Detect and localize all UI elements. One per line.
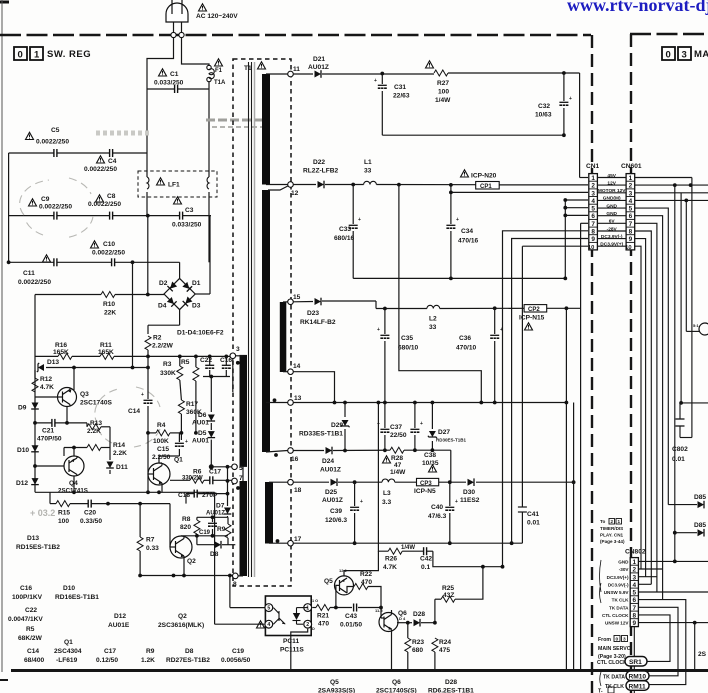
- svg-text:AU01: AU01: [192, 420, 209, 427]
- diode D2: [167, 281, 177, 291]
- left dashed border of page 03: [630, 34, 632, 693]
- svg-text:2: 2: [629, 183, 633, 190]
- svg-text:C39: C39: [330, 508, 342, 515]
- bottom row y=575.5 to pin8: [140, 575, 232, 577]
- svg-text:100P/1KV: 100P/1KV: [12, 594, 43, 601]
- svg-text:RD6.2ES-T1B1: RD6.2ES-T1B1: [428, 688, 474, 693]
- pin16 rail: [293, 450, 451, 482]
- svg-text:13: 13: [294, 395, 302, 402]
- transistor Q4: [64, 456, 84, 476]
- svg-text:5: 5: [239, 465, 243, 472]
- svg-text:C20: C20: [84, 510, 96, 517]
- svg-text:D85: D85: [694, 522, 706, 529]
- svg-text:R2: R2: [153, 335, 162, 342]
- svg-text:AC 120~240V: AC 120~240V: [196, 13, 238, 20]
- resistor R17: [178, 400, 184, 414]
- svg-text:+: +: [377, 327, 380, 333]
- svg-text:D12: D12: [16, 480, 28, 487]
- svg-text:R14: R14: [113, 442, 125, 449]
- svg-text:2SC3616(MLK): 2SC3616(MLK): [158, 622, 204, 629]
- svg-text:AU01Z: AU01Z: [322, 497, 343, 504]
- wire 3 (C11/C10 row) y=262.3: [9, 216, 210, 368]
- capacitor C33: [349, 225, 358, 228]
- svg-text:17: 17: [294, 536, 302, 543]
- svg-text:2: 2: [306, 622, 309, 628]
- svg-text:270P: 270P: [202, 492, 218, 499]
- svg-text:Q1: Q1: [174, 457, 183, 464]
- svg-text:2SC1740S: 2SC1740S: [80, 400, 112, 407]
- svg-text:C17: C17: [209, 469, 221, 476]
- svg-text:C32: C32: [538, 103, 550, 110]
- svg-text:2S: 2S: [698, 651, 707, 658]
- svg-text:9: 9: [633, 620, 637, 627]
- svg-text:D: D: [312, 627, 315, 631]
- capacitor C21 row y=422.9: [35, 422, 87, 424]
- capacitor C802: [676, 419, 685, 426]
- svg-text:TK DATA: TK DATA: [609, 605, 629, 610]
- svg-text:0.0022/250: 0.0022/250: [88, 201, 121, 208]
- pin 18: [288, 479, 294, 485]
- top dashed border page 01: [0, 34, 591, 37]
- svg-text:C22: C22: [25, 607, 37, 614]
- svg-text:+: +: [185, 439, 188, 445]
- resistor R8: [194, 520, 200, 534]
- capacitor C38: [410, 429, 419, 432]
- svg-text:8: 8: [591, 229, 595, 236]
- svg-text:C35: C35: [401, 335, 413, 342]
- resistor R15 / cap C20 row y=503.6: [50, 504, 170, 547]
- svg-text:C19: C19: [199, 530, 211, 536]
- resistor R13: [87, 424, 101, 430]
- svg-text:D1-D4:10E6-F2: D1-D4:10E6-F2: [177, 330, 224, 337]
- svg-text:RD15ES-T1B2: RD15ES-T1B2: [16, 544, 60, 551]
- zener D13: [37, 363, 44, 372]
- capacitor C32: [559, 102, 568, 105]
- From MAIN SERVO note: [598, 637, 631, 660]
- svg-text:AU01E: AU01E: [108, 622, 130, 629]
- svg-text:6: 6: [591, 213, 595, 220]
- svg-text:R12: R12: [40, 376, 52, 383]
- section label 03 MA: [662, 47, 691, 60]
- resistor R11: [100, 353, 114, 359]
- svg-text:22/63: 22/63: [393, 93, 410, 100]
- svg-text:47/6.3: 47/6.3: [428, 513, 447, 520]
- svg-text:C42: C42: [420, 556, 432, 563]
- svg-text:F1: F1: [215, 68, 223, 74]
- svg-text:C14: C14: [128, 408, 140, 415]
- zener D29: [341, 420, 350, 427]
- svg-text:165K: 165K: [98, 349, 114, 356]
- svg-text:0.0022/250: 0.0022/250: [18, 279, 51, 286]
- top-left scan mark: [0, 1, 9, 4]
- svg-text:R22: R22: [360, 571, 372, 578]
- svg-text:16: 16: [291, 456, 299, 463]
- svg-text:0: 0: [666, 50, 672, 61]
- wire 2 (C9/C8/C3 row) y=215.6: [9, 215, 211, 217]
- svg-text:L3: L3: [383, 490, 391, 497]
- secondary winding 11-12: [262, 74, 270, 185]
- svg-text:0.01: 0.01: [672, 456, 685, 463]
- svg-text:C18: C18: [178, 492, 190, 499]
- svg-text:2.2/2W: 2.2/2W: [152, 343, 174, 350]
- svg-text:D10: D10: [17, 447, 29, 454]
- pin 15: [288, 299, 294, 305]
- svg-text:470: 470: [318, 621, 329, 628]
- R26/C42 row: [378, 403, 502, 567]
- svg-text:680/10: 680/10: [398, 345, 419, 352]
- svg-text:C15: C15: [157, 446, 169, 453]
- svg-text:33: 33: [364, 168, 372, 175]
- svg-text:Q6: Q6: [392, 679, 401, 686]
- capacitor C35: [384, 309, 386, 403]
- svg-text:RD33ES-T1B1: RD33ES-T1B1: [299, 431, 343, 438]
- svg-text:Q5: Q5: [330, 679, 339, 686]
- svg-text:0.01: 0.01: [527, 520, 540, 527]
- secondary winding 13-16: [262, 190, 270, 452]
- pin 3: [230, 353, 236, 359]
- svg-text:6: 6: [633, 597, 637, 604]
- wire pin5 stub: [209, 465, 231, 469]
- svg-text:4: 4: [591, 198, 595, 205]
- rows exiting CN601: [635, 177, 692, 179]
- resistor R3 vertical: [193, 367, 199, 381]
- svg-text:D7: D7: [216, 503, 225, 510]
- svg-text:R26: R26: [385, 556, 397, 563]
- svg-text:R9: R9: [146, 648, 155, 655]
- pin 14: [288, 369, 294, 375]
- svg-text:+: +: [420, 421, 423, 427]
- svg-text:22K: 22K: [104, 310, 116, 317]
- C14 vertical line: [147, 356, 149, 492]
- svg-text:1/4W: 1/4W: [390, 469, 406, 476]
- svg-text:22/50: 22/50: [390, 432, 407, 439]
- svg-text:(Page 3-44): (Page 3-44): [600, 539, 625, 544]
- diode D7: [224, 508, 232, 515]
- svg-text:C802: C802: [672, 446, 688, 453]
- svg-text:R15: R15: [58, 510, 70, 517]
- svg-text:4: 4: [629, 198, 633, 205]
- diode D11: [106, 462, 114, 469]
- wire 1 (C5/C4 row) y=153: [9, 153, 147, 262]
- svg-text:5:1: 5:1: [693, 323, 700, 328]
- svg-text:D28: D28: [413, 611, 425, 618]
- svg-text:820: 820: [180, 524, 191, 531]
- svg-text:68K/2W: 68K/2W: [18, 635, 43, 642]
- svg-text:RK14LF-B2: RK14LF-B2: [300, 319, 336, 326]
- svg-text:120/6.3: 120/6.3: [325, 517, 347, 524]
- svg-text:D22: D22: [313, 159, 325, 166]
- svg-text:D30: D30: [463, 489, 475, 496]
- diode D28: [414, 619, 421, 627]
- top dashed border page 03: [630, 33, 708, 36]
- svg-text:0.0022/250: 0.0022/250: [36, 139, 69, 146]
- svg-text:AU01Z: AU01Z: [308, 64, 329, 71]
- svg-text:R25: R25: [442, 585, 454, 592]
- PC11 wires: [215, 608, 381, 671]
- svg-text:CN601: CN601: [621, 163, 642, 170]
- svg-text:100: 100: [58, 518, 69, 525]
- net labels between connectors: [598, 173, 626, 248]
- svg-text:D8: D8: [185, 648, 194, 655]
- svg-text:TK DATA: TK DATA: [603, 675, 625, 681]
- svg-text:C22: C22: [200, 357, 212, 364]
- CN802 wires: [634, 561, 708, 693]
- capacitor C41: [518, 246, 588, 543]
- svg-text:D13: D13: [47, 359, 59, 366]
- svg-text:9: 9: [591, 236, 595, 243]
- svg-text:2SA933S(S): 2SA933S(S): [318, 688, 355, 693]
- svg-text:1: 1: [618, 519, 621, 524]
- transistor Q6: [379, 613, 398, 632]
- bottom left dash stub: [0, 679, 8, 681]
- svg-text:RD27ES-T1B2: RD27ES-T1B2: [166, 657, 210, 664]
- svg-text:8: 8: [633, 613, 637, 620]
- svg-text:D6: D6: [198, 412, 207, 419]
- svg-text:T1A: T1A: [214, 80, 226, 86]
- diode D4: [167, 297, 177, 307]
- svg-text:470P/50: 470P/50: [37, 436, 62, 443]
- svg-text:7: 7: [629, 221, 633, 228]
- pin 16: [288, 448, 294, 454]
- svg-text:D10: D10: [63, 585, 75, 592]
- diode D30: [468, 478, 475, 486]
- diode D858: [698, 529, 705, 537]
- svg-text:2: 2: [591, 183, 595, 190]
- resistor R14: [87, 445, 101, 451]
- svg-text:D 4: D 4: [399, 616, 406, 621]
- svg-text:C41: C41: [527, 511, 539, 518]
- svg-text:2SC1740S(S): 2SC1740S(S): [376, 688, 417, 693]
- svg-text:470/10: 470/10: [456, 345, 477, 352]
- svg-text:C19: C19: [232, 648, 244, 655]
- svg-text:5: 5: [267, 606, 270, 612]
- svg-text:D1: D1: [192, 280, 201, 287]
- capacitor C19: [208, 523, 217, 526]
- svg-text:8: 8: [629, 229, 633, 236]
- circuit protector CP3: [417, 478, 439, 485]
- svg-text:L1: L1: [364, 159, 372, 166]
- svg-text:AU01Z: AU01Z: [206, 511, 225, 517]
- svg-text:18: 18: [294, 487, 302, 494]
- svg-text:475: 475: [439, 647, 450, 654]
- svg-text:14: 14: [293, 363, 301, 370]
- svg-text:2.2/50: 2.2/50: [152, 454, 171, 461]
- svg-text:R27: R27: [437, 80, 449, 87]
- circuit protector CP2: [524, 305, 547, 312]
- svg-text:11ES2: 11ES2: [460, 497, 480, 504]
- svg-text:C16: C16: [20, 585, 32, 592]
- svg-text:D85: D85: [694, 494, 706, 501]
- long feedback vertical to PC11 pin4: [214, 492, 216, 624]
- svg-text:0: 0: [616, 637, 619, 643]
- capacitor C18 row: [186, 494, 228, 504]
- svg-text:UNSW 12V: UNSW 12V: [605, 621, 629, 626]
- svg-text:330K: 330K: [160, 370, 176, 377]
- svg-text:11.5: 11.5: [375, 608, 383, 613]
- svg-text:D11: D11: [116, 464, 128, 471]
- svg-text:7: 7: [239, 475, 243, 482]
- svg-text:R11: R11: [100, 342, 112, 349]
- svg-text:470/16: 470/16: [458, 238, 479, 245]
- resistor R7: [137, 537, 143, 551]
- svg-text:1/4W: 1/4W: [435, 97, 451, 104]
- wire verticals through LF1: [147, 89, 209, 262]
- svg-text:D24: D24: [322, 458, 334, 465]
- plug terminals on dashed line: [171, 32, 176, 37]
- svg-text:CN802: CN802: [625, 549, 646, 556]
- svg-text:3: 3: [633, 574, 637, 581]
- svg-text:ICP-N5: ICP-N5: [414, 488, 436, 495]
- svg-text:+: +: [360, 499, 363, 505]
- pin 7: [232, 478, 238, 484]
- diode D22: [318, 181, 325, 189]
- svg-text:10: 10: [625, 245, 631, 251]
- svg-text:To: To: [600, 519, 605, 524]
- svg-text:C31: C31: [394, 84, 406, 91]
- svg-text:3: 3: [629, 190, 633, 197]
- bottom border: [11, 669, 708, 672]
- svg-text:SR1: SR1: [629, 659, 642, 666]
- pin 12: [288, 182, 294, 188]
- svg-text:PLAY. CN1: PLAY. CN1: [600, 533, 624, 538]
- diode D9: [31, 403, 39, 410]
- svg-text:47: 47: [394, 462, 402, 469]
- svg-text:11: 11: [293, 66, 300, 73]
- inductor L3: [382, 479, 395, 482]
- svg-text:ICP-N20: ICP-N20: [471, 173, 497, 180]
- resistor R12: [32, 378, 38, 392]
- svg-text:+: +: [569, 96, 572, 102]
- svg-text:1: 1: [633, 559, 637, 566]
- svg-text:SW. REG: SW. REG: [47, 49, 91, 60]
- svg-text:C4: C4: [108, 158, 117, 165]
- svg-text:5: 5: [633, 590, 637, 597]
- svg-text:3: 3: [623, 637, 626, 643]
- diode D21: [315, 70, 322, 78]
- pin14 return wire: [293, 185, 481, 403]
- svg-text:RM11: RM11: [629, 683, 647, 690]
- svg-text:R28: R28: [391, 455, 403, 462]
- R25 row: [435, 567, 483, 623]
- winding connection stubs: [233, 74, 288, 576]
- svg-text:MA: MA: [694, 49, 708, 60]
- capacitor C36: [494, 308, 496, 402]
- transistor (partial) right edge: [699, 323, 708, 335]
- resistor R23: [405, 638, 411, 652]
- svg-text:C10: C10: [103, 241, 115, 248]
- scan noise arcs: [20, 120, 268, 518]
- wires joining CN1-CN601 cells: [597, 178, 626, 247]
- svg-text:4: 4: [633, 582, 637, 589]
- svg-text:R5: R5: [181, 359, 190, 366]
- primary winding pin7-pin8: [240, 481, 248, 576]
- svg-text:+: +: [141, 392, 144, 398]
- resistor R10 row: [35, 216, 164, 295]
- svg-text:R16: R16: [55, 342, 67, 349]
- svg-text:LF1: LF1: [168, 182, 180, 189]
- svg-text:+: +: [358, 217, 361, 223]
- resistor R27: [434, 70, 448, 76]
- svg-text:RL2Z-LFB2: RL2Z-LFB2: [303, 168, 338, 175]
- svg-text:0.1: 0.1: [421, 564, 430, 571]
- svg-text:0.0022/250: 0.0022/250: [39, 204, 72, 211]
- svg-text:AU01Z: AU01Z: [320, 467, 341, 474]
- svg-text:RM10: RM10: [629, 674, 647, 681]
- zener D27: [428, 431, 437, 438]
- capacitor C34: [446, 225, 455, 228]
- svg-text:UNSW 5.9V: UNSW 5.9V: [604, 590, 630, 595]
- svg-text:0.0022/250: 0.0022/250: [84, 166, 117, 173]
- diode D25: [331, 478, 338, 486]
- pin 13: [288, 400, 294, 406]
- polarity dots: [273, 398, 277, 402]
- svg-text:-LF619: -LF619: [56, 657, 78, 664]
- svg-text:MAIN SERVO: MAIN SERVO: [598, 646, 631, 652]
- svg-text:CTL CLOCK: CTL CLOCK: [597, 660, 627, 666]
- svg-text:4.7K: 4.7K: [40, 384, 54, 391]
- svg-text:2: 2: [611, 519, 614, 524]
- svg-text:2SC4304: 2SC4304: [54, 648, 82, 655]
- svg-text:PC111S: PC111S: [280, 647, 304, 654]
- diode D24: [326, 447, 333, 455]
- svg-text:1: 1: [306, 606, 309, 612]
- svg-text:4.7K: 4.7K: [383, 564, 397, 571]
- svg-text:C40: C40: [431, 504, 443, 511]
- Q5 wires: [336, 551, 379, 607]
- svg-text:CP1: CP1: [480, 184, 492, 190]
- svg-text:R17: R17: [186, 401, 198, 408]
- svg-text:5: 5: [591, 206, 595, 213]
- transistor Q5: [335, 576, 354, 595]
- diode D8: [215, 541, 222, 549]
- svg-text:2: 2: [633, 567, 637, 574]
- svg-text:165K: 165K: [53, 349, 69, 356]
- svg-text:9: 9: [629, 236, 633, 243]
- svg-text:3.3: 3.3: [382, 499, 391, 506]
- svg-text:15: 15: [293, 294, 301, 301]
- svg-text:CTL CLOCK: CTL CLOCK: [602, 613, 629, 618]
- svg-text:D29: D29: [331, 422, 343, 429]
- svg-text:1.2K: 1.2K: [141, 657, 155, 664]
- svg-text:8: 8: [233, 581, 237, 588]
- svg-text:680/16: 680/16: [334, 235, 355, 242]
- svg-text:D4: D4: [158, 303, 167, 310]
- svg-text:6: 6: [629, 213, 633, 220]
- svg-text:0: 0: [18, 50, 24, 61]
- right page vertical bus: [691, 178, 693, 438]
- svg-text:D25: D25: [325, 489, 337, 496]
- resistor R24: [432, 638, 438, 652]
- svg-text:5: 5: [629, 206, 633, 213]
- resistor R5: [177, 366, 183, 380]
- diode D12: [31, 478, 39, 485]
- svg-text:+: +: [456, 217, 459, 223]
- transformer dashed box: [233, 59, 291, 586]
- svg-text:From: From: [598, 637, 611, 643]
- resistor R6 row to pin7: [170, 479, 232, 481]
- right dashed border of page 01: [591, 35, 593, 693]
- svg-text:C37: C37: [390, 424, 402, 431]
- svg-text:1 O: 1 O: [312, 599, 318, 603]
- svg-text:100: 100: [438, 89, 449, 96]
- svg-text:CN1: CN1: [586, 163, 600, 170]
- svg-text:10/35: 10/35: [422, 460, 439, 467]
- svg-text:DC3.9V(-): DC3.9V(-): [608, 582, 629, 587]
- svg-text:C21: C21: [42, 428, 54, 435]
- svg-text:-30V: -30V: [619, 567, 630, 572]
- diode D3: [183, 296, 193, 306]
- svg-text:330/2W: 330/2W: [182, 476, 203, 482]
